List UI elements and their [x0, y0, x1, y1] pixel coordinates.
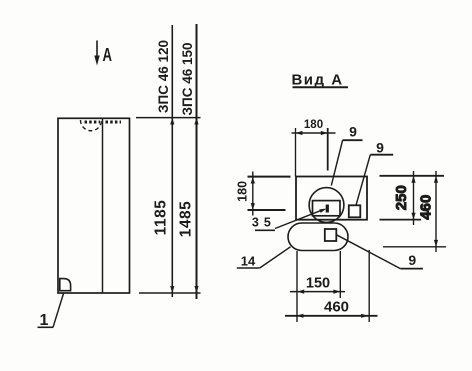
svg-text:ЗПС 46 150: ЗПС 46 150 — [180, 43, 195, 116]
svg-text:9: 9 — [376, 140, 384, 156]
svg-text:180: 180 — [236, 181, 250, 202]
svg-text:250: 250 — [393, 185, 410, 210]
svg-text:Вид А: Вид А — [291, 71, 343, 88]
svg-text:9: 9 — [349, 123, 357, 139]
svg-text:5: 5 — [264, 216, 271, 230]
svg-text:1: 1 — [40, 312, 49, 329]
svg-text:460: 460 — [417, 195, 434, 220]
svg-text:180: 180 — [304, 119, 323, 131]
svg-text:3: 3 — [252, 216, 259, 230]
svg-text:1185: 1185 — [152, 200, 169, 236]
svg-text:9: 9 — [408, 252, 416, 268]
svg-text:460: 460 — [324, 299, 349, 316]
svg-text:14: 14 — [241, 253, 256, 268]
svg-text:150: 150 — [306, 276, 330, 292]
svg-text:ЗПС 46 120: ЗПС 46 120 — [156, 40, 171, 113]
svg-text:1485: 1485 — [177, 201, 194, 237]
svg-text:А: А — [103, 45, 113, 65]
